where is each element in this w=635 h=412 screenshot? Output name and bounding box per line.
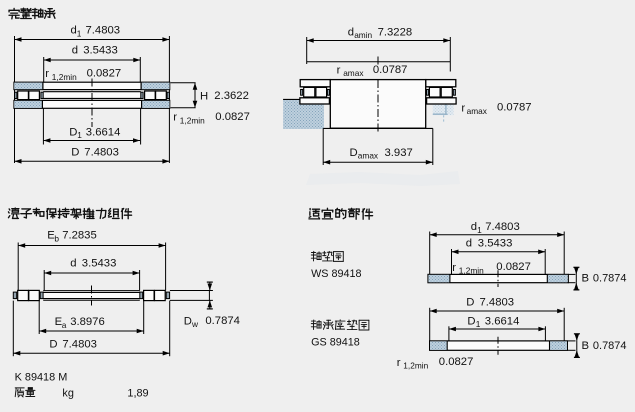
- dimension d 3.5433 (bottom-left): [44, 257, 139, 275]
- label r_amax 0.0787 (right): [461, 102, 531, 116]
- cage rims right (top-right): [427, 90, 456, 96]
- dimension D1 3.6614 (GS washer): [449, 316, 546, 332]
- svg-text:r: r: [452, 262, 456, 274]
- title: 滚子和保持架推力组件: [8, 208, 19, 218]
- svg-text:0.7874: 0.7874: [593, 340, 627, 352]
- title: 完整轴承 (complete bearing): [9, 8, 19, 18]
- svg-text:7.2835: 7.2835: [62, 230, 97, 242]
- bearing housing washer band (top-left): [14, 100, 170, 108]
- GS washer strip: [430, 341, 568, 350]
- label 轴承座垫圈 (housing washer): [311, 320, 321, 330]
- svg-text:0.7874: 0.7874: [593, 273, 627, 285]
- cage rims left (bottom-left): [13, 292, 43, 299]
- svg-text:1: 1: [476, 319, 481, 329]
- extension lines D1 (top-left): [43, 108, 140, 144]
- label 轴垫圈 (shaft washer): [311, 251, 321, 261]
- svg-text:amax: amax: [343, 68, 364, 78]
- label r1,2min 0.0827 (GS): [397, 356, 474, 370]
- bearing shaft washer band (top-left): [14, 82, 170, 89]
- dimension D 7.4803 (GS washer): [430, 297, 565, 314]
- svg-text:3.5433: 3.5433: [478, 238, 513, 250]
- svg-text:7.4803: 7.4803: [62, 338, 97, 350]
- svg-text:0.0827: 0.0827: [496, 261, 531, 273]
- rollers right (bottom-left): [144, 290, 166, 300]
- svg-text:r: r: [461, 102, 465, 114]
- svg-text:3.5433: 3.5433: [83, 45, 118, 57]
- svg-text:D: D: [350, 147, 358, 159]
- svg-text:3.937: 3.937: [385, 147, 413, 159]
- label r_amax 0.0787 (upper): [337, 64, 408, 78]
- svg-text:B: B: [582, 340, 590, 352]
- svg-text:7.3228: 7.3228: [378, 26, 413, 38]
- svg-text:w: w: [191, 319, 199, 329]
- svg-text:GS 89418: GS 89418: [311, 336, 360, 348]
- extension lines d (top-left): [44, 57, 141, 82]
- svg-text:amax: amax: [358, 150, 379, 160]
- svg-text:r: r: [45, 68, 49, 80]
- svg-text:1: 1: [77, 130, 82, 140]
- rollers left (top-left): [18, 91, 40, 100]
- extension lines d1 (WS): [430, 232, 565, 275]
- rollers left (bottom-left): [18, 290, 40, 300]
- svg-text:d: d: [348, 26, 354, 38]
- seat base line: [323, 127, 433, 129]
- svg-text:K 89418 M: K 89418 M: [15, 371, 68, 383]
- svg-text:3.6614: 3.6614: [86, 126, 121, 138]
- extension lines d_amin: [307, 37, 451, 72]
- extension lines Ea: [39, 301, 144, 334]
- cage rims left (top-right): [301, 90, 330, 96]
- cage middle lines (bottom-left strip): [43, 291, 140, 301]
- svg-text:0.0787: 0.0787: [497, 102, 532, 114]
- label r1,2min 0.0827 (top-left upper): [45, 68, 121, 83]
- svg-text:b: b: [54, 233, 59, 243]
- title: 适宜的部件 (suitable parts): [309, 209, 320, 219]
- svg-text:7.4803: 7.4803: [480, 297, 515, 309]
- housing hatch light (right) with r_a corner: [433, 104, 454, 122]
- svg-text:1,2min: 1,2min: [52, 72, 77, 82]
- faint watermark smudge: [306, 171, 460, 186]
- centerline axis (top-left): [91, 79, 93, 128]
- dimension d 3.5433 (WS washer): [452, 238, 546, 255]
- central shaft block: [330, 80, 425, 129]
- svg-text:d: d: [70, 257, 76, 269]
- svg-text:0.0827: 0.0827: [439, 356, 474, 368]
- svg-text:7.4803: 7.4803: [485, 221, 520, 233]
- svg-text:0.0827: 0.0827: [215, 111, 250, 123]
- svg-text:amin: amin: [354, 30, 372, 40]
- housing washer left section: [300, 98, 330, 104]
- label r1,2min 0.0827 (top-left lower): [173, 111, 250, 125]
- extension lines Eb: [18, 243, 165, 291]
- housing block hatched (left): [283, 99, 324, 129]
- svg-text:H: H: [200, 91, 208, 103]
- mass row: 质量 kg 1,89: [15, 388, 148, 400]
- extension lines D (bottom-left): [13, 301, 169, 357]
- extension lines d (bottom-left): [44, 270, 139, 290]
- svg-text:1,89: 1,89: [127, 388, 148, 400]
- svg-text:1,2min: 1,2min: [180, 115, 205, 125]
- section: abutment dimensions drawing (top-right): [283, 26, 531, 186]
- shaft shoulder top line: [307, 61, 451, 63]
- svg-text:3.8976: 3.8976: [70, 316, 105, 328]
- svg-text:0.7874: 0.7874: [205, 315, 240, 327]
- rollers right (top-left): [145, 91, 167, 100]
- shaft washer right section: [426, 80, 456, 87]
- svg-text:D: D: [184, 315, 192, 327]
- dimension Dw 0.7874: [170, 282, 240, 329]
- svg-text:7.4803: 7.4803: [84, 146, 119, 158]
- dimension d1 7.4803 (top-left): [15, 25, 170, 42]
- svg-text:D: D: [69, 126, 77, 138]
- extension lines D_amax: [323, 128, 433, 165]
- centerline (WS washer): [497, 270, 499, 287]
- dimension D_amax 3.937: [323, 147, 433, 165]
- svg-text:r: r: [337, 64, 341, 76]
- svg-text:3.6614: 3.6614: [485, 316, 520, 328]
- svg-text:r: r: [173, 112, 177, 124]
- svg-text:d: d: [466, 238, 472, 250]
- cage rims left (top-left): [15, 92, 44, 98]
- svg-text:D: D: [466, 297, 474, 309]
- centerline axis (top-right): [377, 57, 379, 133]
- shaft washer left section: [300, 80, 330, 87]
- dimension H 2.3622 (top-left): [171, 83, 249, 108]
- dimension d1 7.4803 (WS washer): [430, 221, 565, 237]
- section: roller and cage assembly drawing (bottom-left): [8, 208, 240, 400]
- centerline (bottom-left strip): [91, 286, 93, 306]
- svg-text:kg: kg: [62, 388, 74, 400]
- section: associated parts drawings (bottom-right): [309, 208, 627, 370]
- dimension D1 3.6614 (top-left): [43, 126, 140, 142]
- WS washer strip: [428, 274, 568, 282]
- cage rims right (top-left): [141, 92, 170, 98]
- cage rims right (bottom-left): [140, 292, 170, 299]
- roller/cage middle lines (top-left): [43, 92, 141, 99]
- svg-text:3.5433: 3.5433: [82, 257, 117, 269]
- dimension B 0.7874 (WS): [568, 267, 626, 290]
- svg-text:D: D: [49, 338, 57, 350]
- dimension Ea 3.8976: [39, 316, 144, 333]
- dimension B 0.7874 (GS): [567, 334, 626, 358]
- svg-text:r: r: [397, 357, 401, 369]
- dimension D 7.4803 (bottom-left): [13, 338, 169, 355]
- extension lines D (GS): [430, 308, 565, 341]
- extension lines D1 (GS): [449, 326, 546, 341]
- svg-text:a: a: [62, 320, 67, 330]
- housing washer right section: [427, 98, 457, 104]
- svg-text:D: D: [71, 146, 79, 158]
- svg-text:1,2min: 1,2min: [403, 361, 428, 371]
- centerline (GS washer): [497, 337, 499, 355]
- svg-text:1: 1: [77, 28, 82, 38]
- svg-text:7.4803: 7.4803: [86, 25, 121, 37]
- dimension D 7.4803 (top-left): [15, 146, 170, 163]
- svg-text:1: 1: [477, 225, 482, 235]
- svg-text:0.0787: 0.0787: [373, 64, 408, 76]
- label r1,2min 0.0827 (WS): [452, 261, 531, 275]
- section: complete bearing drawing (top-left): [9, 8, 250, 163]
- svg-text:d: d: [72, 45, 78, 57]
- rollers left (top-right): [304, 87, 327, 97]
- extension lines d (WS): [452, 249, 546, 274]
- svg-text:2.3622: 2.3622: [214, 90, 249, 102]
- svg-text:D: D: [467, 316, 475, 328]
- dimension d 3.5433 (top-left): [44, 45, 141, 63]
- svg-text:amax: amax: [467, 106, 488, 116]
- rollers right (top-right): [429, 87, 452, 97]
- svg-text:WS 89418: WS 89418: [311, 268, 361, 280]
- svg-text:0.0827: 0.0827: [87, 68, 122, 80]
- svg-text:B: B: [582, 273, 590, 285]
- dimension Eb 7.2835: [18, 230, 165, 248]
- extension lines d1/D (top-left): [15, 36, 170, 163]
- dimension d_amin 7.3228: [307, 26, 451, 43]
